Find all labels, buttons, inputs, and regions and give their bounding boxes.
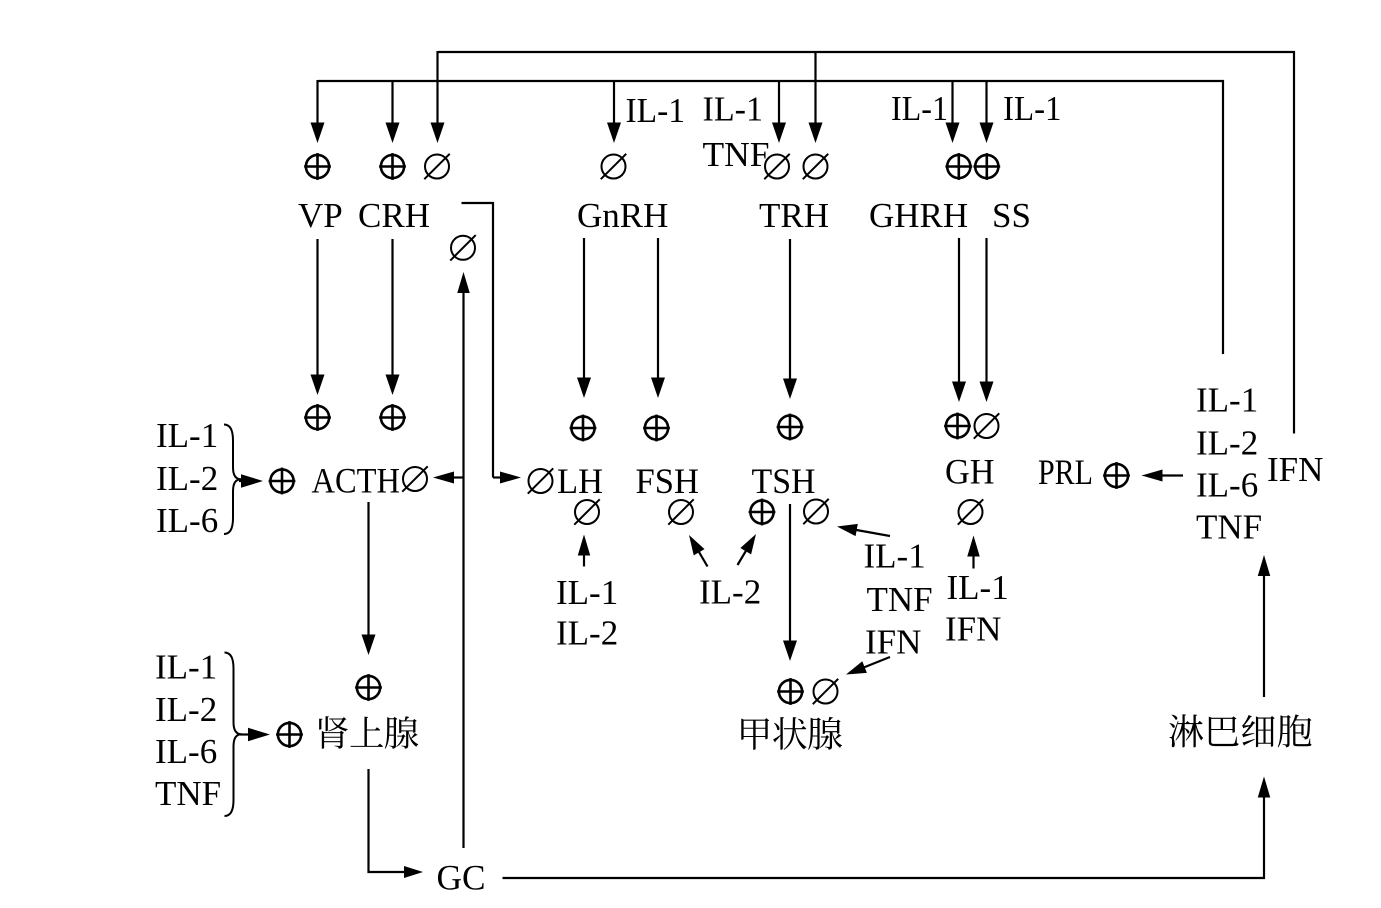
symbol slash below TSH (804, 500, 828, 524)
arrow upper-left block to ACTH plus (239, 480, 243, 482)
wire top feedback line 2 (inner, from IL-1 column across top) (318, 81, 1223, 354)
label adrenal gland (Chinese) (319, 716, 348, 749)
symbol plus above GH (946, 414, 969, 437)
svg-text:IL-2: IL-2 (156, 459, 218, 498)
arrow IL-2 up-right to TSH plus (738, 549, 748, 565)
symbol plus below TSH (750, 500, 773, 523)
arrow cytokines to PRL (1161, 474, 1184, 476)
symbol plus above LH (571, 416, 594, 439)
arrow GC feedback left to ACTH slash (452, 476, 464, 478)
svg-text:TNF: TNF (155, 774, 221, 813)
svg-text:GnRH: GnRH (577, 196, 668, 235)
symbol slash before LH (529, 469, 553, 493)
arrow IL-1 IL-2 up to LH slash (583, 554, 585, 567)
symbol plus above thyroid (779, 680, 802, 703)
svg-text:VP: VP (298, 196, 343, 235)
arrow IL-1 IFN up to GH slash (972, 555, 974, 569)
label thyroid (Chinese) (741, 718, 769, 750)
svg-text:IL-2: IL-2 (556, 614, 618, 653)
label lymphocyte (Chinese) (1169, 714, 1203, 747)
symbol slash on GC feedback (451, 236, 475, 260)
symbol plus above ACTH left (306, 406, 329, 429)
arrow GC feedback up to slash (462, 291, 464, 848)
svg-text:PRL: PRL (1038, 452, 1093, 492)
svg-text:GC: GC (437, 858, 486, 898)
svg-text:IL-2: IL-2 (699, 573, 761, 612)
arrow VP down (316, 239, 318, 377)
arrow down to plus SS (985, 80, 987, 125)
svg-text:FSH: FSH (636, 461, 700, 501)
symbol slash third (425, 155, 449, 179)
arrow down to slash TRH 2 (814, 51, 816, 125)
arrow CRH down (391, 239, 393, 377)
arrow lymphocyte up to cytokines (1263, 574, 1265, 697)
svg-text:IL-2: IL-2 (155, 690, 217, 729)
arrow down to plus GHRH (951, 80, 953, 125)
arrow down to plus VP (316, 80, 318, 125)
svg-text:IL-6: IL-6 (155, 732, 217, 771)
svg-text:IL-1: IL-1 (155, 648, 217, 687)
svg-text:TNF: TNF (703, 135, 770, 174)
svg-text:IL-1: IL-1 (864, 537, 926, 576)
svg-text:IL-1: IL-1 (1196, 381, 1258, 420)
arrow GnRH down left (583, 238, 585, 380)
svg-text:IL-6: IL-6 (1196, 466, 1258, 505)
svg-text:IL-1: IL-1 (1003, 89, 1062, 128)
symbol plus before ACTH (270, 469, 293, 492)
symbol slash below FSH (669, 500, 693, 524)
svg-text:IL-1: IL-1 (156, 416, 218, 455)
arrow adrenal down to GC (369, 769, 386, 872)
svg-text:GHRH: GHRH (869, 196, 968, 235)
symbol slash above GH (975, 414, 999, 438)
symbol slash after ACTH (403, 467, 427, 491)
symbol slash above thyroid (814, 680, 838, 704)
svg-text:GH: GH (945, 452, 995, 492)
arrow IL-1 left to TSH slash (854, 529, 890, 536)
svg-text:IL-2: IL-2 (1196, 424, 1258, 463)
symbol plus above TSH (778, 415, 801, 438)
symbol plus above ACTH right (381, 406, 404, 429)
wire top feedback line 1 (outer, from IFN column across top) (438, 52, 1294, 434)
arrow TRH down (789, 239, 791, 381)
symbol plus after PRL (1105, 464, 1128, 487)
brace lower-left block (225, 653, 242, 817)
symbol plus before adrenal (278, 723, 301, 746)
svg-text:TNF: TNF (1196, 508, 1262, 547)
svg-text:LH: LH (557, 461, 603, 501)
svg-text:TNF: TNF (867, 580, 933, 619)
svg-text:TRH: TRH (759, 196, 829, 235)
arrow down to slash TRH 1 (778, 80, 780, 125)
symbol slash below LH (575, 500, 599, 524)
svg-text:IL-1: IL-1 (626, 91, 686, 130)
symbol slash below GH (959, 500, 983, 524)
arrow down to slash (third) (436, 51, 438, 125)
symbol slash above TRH 1 (765, 155, 789, 179)
svg-text:CRH: CRH (358, 196, 430, 235)
arrow SS down (985, 238, 987, 384)
symbol plus above VP (306, 155, 329, 178)
arrow down to slash GnRH (613, 80, 615, 125)
arrow TSH down to thyroid (789, 504, 791, 643)
symbol plus above SS (975, 155, 998, 178)
svg-text:IL-1: IL-1 (891, 89, 948, 128)
wire GC to lymphocyte with arrow up (503, 800, 1265, 878)
svg-text:IL-1: IL-1 (556, 573, 618, 612)
svg-text:IL-1: IL-1 (703, 90, 764, 129)
symbol slash above TRH 2 (804, 155, 828, 179)
arrow lower-left block to adrenal plus (240, 733, 250, 735)
wire GC feedback corner to LH with arrow (462, 203, 494, 478)
svg-text:IL-6: IL-6 (156, 501, 218, 540)
arrow ACTH down to adrenal (367, 502, 369, 637)
svg-text:ACTH: ACTH (312, 461, 401, 501)
svg-text:IL-1: IL-1 (947, 568, 1009, 607)
arrow GnRH down right (657, 238, 659, 380)
symbol plus above adrenal (357, 676, 380, 699)
symbol plus above FSH (645, 416, 668, 439)
svg-text:IFN: IFN (945, 610, 1001, 649)
arrow down to plus CRH (391, 80, 393, 125)
symbol slash above GnRH (602, 155, 626, 179)
svg-text:IFN: IFN (865, 623, 921, 662)
symbol plus above GHRH (947, 155, 970, 178)
arrow GHRH down (958, 238, 960, 384)
svg-text:TSH: TSH (752, 461, 816, 501)
arrow IFN down-left to thyroid slash (862, 657, 890, 668)
svg-text:IFN: IFN (1267, 450, 1323, 489)
brace upper-left block (224, 425, 241, 535)
svg-text:SS: SS (992, 196, 1031, 235)
symbol plus above CRH (381, 155, 404, 178)
arrow IL-2 up-left to FSH slash (698, 550, 708, 567)
